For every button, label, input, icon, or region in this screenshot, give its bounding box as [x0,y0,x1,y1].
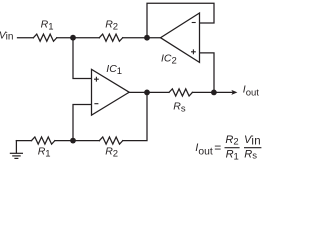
op-amp IC1 noninverting pin + [94,77,99,82]
wire Vin to R1 [18,37,34,39]
wire R2 to IC2 output node B [123,37,161,39]
op-amp IC1 [92,69,130,115]
wire bottom R2 up to node E [123,92,147,140]
op-amp IC1 inverting pin - [94,103,98,105]
wire node A down to IC1 noninverting input [73,38,92,78]
svg-text:=: = [214,140,221,154]
node B junction dot (IC2 output) [144,35,150,41]
svg-text:Vin: Vin [0,31,13,43]
svg-text:R1: R1 [38,145,51,159]
svg-text:Rs: Rs [173,100,186,114]
node A junction dot [70,35,76,41]
svg-text:R1: R1 [41,18,54,32]
svg-text:Vin: Vin [244,134,261,147]
resistor R1 (bottom) [32,137,55,144]
resistor R2 (bottom) [99,137,122,144]
node D junction dot (bottom) [70,138,76,144]
wire Rs to node C [192,91,214,93]
ground symbol bars [10,153,23,158]
ground stem [15,141,17,153]
op-amp IC2 inverting pin - [192,22,196,24]
resistor R2 (top) [99,34,122,41]
formula Iout = (R2/R1)(Vin/Rs) [195,134,261,162]
svg-text:Iout: Iout [243,84,259,99]
wire IC2 feedback loop to inverting input [147,3,214,37]
node C junction dot (after Rs) [211,90,217,96]
op-amp IC2 [161,13,200,62]
svg-text:R1: R1 [226,148,239,162]
svg-text:R2: R2 [225,134,238,147]
wire ground to R1 bottom [16,140,31,142]
resistor R1 (top) [33,34,56,41]
wire node D up to IC1 inverting input [73,105,92,141]
svg-text:Iout: Iout [195,142,213,157]
svg-text:R2: R2 [105,145,118,159]
wire R1 to R2 through node A [57,37,100,39]
wire IC2 noninverting input down to node C [200,53,214,93]
svg-text:Rs: Rs [244,148,257,161]
output arrowhead [231,90,237,95]
wire IC1 output to Rs [129,91,169,93]
svg-text:IC2: IC2 [161,52,177,66]
svg-text:R2: R2 [105,18,118,32]
node E junction dot (IC1 output) [144,90,150,96]
svg-text:IC1: IC1 [106,63,122,77]
op-amp IC2 noninverting pin + [191,49,196,54]
resistor Rs [169,89,192,96]
wire node C to output arrow [214,91,232,93]
wire bottom R1 to R2 through node D [55,140,100,142]
